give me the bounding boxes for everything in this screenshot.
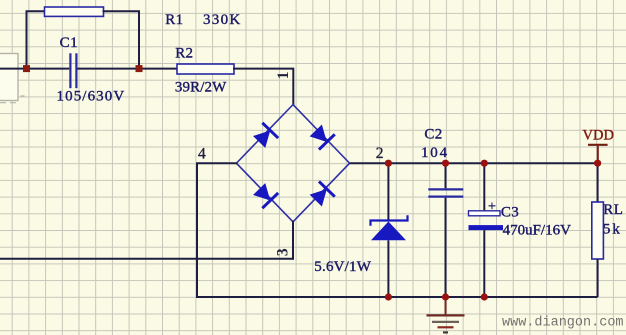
wire: positive rail node 2: [350, 162, 598, 164]
wire: node 2 to zener cathode: [387, 163, 389, 220]
svg-text:5.6V/1W: 5.6V/1W: [314, 259, 371, 275]
wire: R1 right down to main node: [104, 11, 140, 68]
svg-text:C3: C3: [501, 205, 519, 221]
junction (square) at C1 left node: [23, 65, 30, 72]
svg-text:RL: RL: [603, 202, 623, 218]
junction dot: zener top: [385, 160, 392, 167]
junction dot: C2 top: [442, 160, 449, 167]
svg-text:5k: 5k: [603, 221, 622, 237]
bridge diode lower-right (3 to 2): [308, 181, 335, 208]
wire: R2 to bridge pin 1: [234, 69, 293, 105]
bridge diode upper-right (1 to 2): [308, 123, 335, 150]
svg-text:1: 1: [275, 72, 292, 80]
resistor R2: [177, 64, 234, 74]
wire: RL bottom to bottom rail: [597, 259, 599, 297]
svg-text:2: 2: [376, 145, 384, 162]
wire: AC neutral return: [0, 258, 293, 260]
svg-text:4: 4: [198, 146, 206, 163]
svg-text:R2: R2: [175, 46, 193, 62]
junction dot: C3 bottom: [481, 293, 488, 300]
svg-text:330K: 330K: [203, 12, 242, 28]
wire: zener anode to bottom rail: [387, 240, 389, 297]
svg-text:VDD: VDD: [583, 128, 614, 144]
resistor R1: [45, 7, 104, 16]
wire: AC live input to C1 left plate: [0, 68, 69, 70]
capacitor C1: [70, 53, 76, 88]
svg-text:C1: C1: [60, 35, 79, 51]
wire: VDD node to RL: [597, 163, 599, 202]
wire: bridge pin 3 down: [292, 222, 294, 259]
bridge diode lower-left (4 to 3): [251, 181, 278, 208]
power port VDD: [583, 128, 614, 164]
capacitor C3 (electrolytic): [469, 211, 504, 230]
zener diode DZ: [371, 215, 408, 240]
junction dot: VDD node: [594, 160, 601, 167]
svg-text:R1: R1: [165, 12, 183, 28]
AC source box (cut off at left edge): [0, 54, 25, 103]
svg-text:470uF/16V: 470uF/16V: [503, 222, 572, 238]
resistor RL: [592, 202, 604, 259]
junction dot: C3 top: [481, 160, 488, 167]
wire: node 2 to C2 top plate: [445, 163, 447, 188]
junction dot: zener bottom: [385, 293, 392, 300]
svg-text:+: +: [488, 200, 496, 215]
bridge diode upper-left (4 to 1): [251, 123, 278, 150]
ground symbol: [427, 297, 465, 332]
wire: bridge pin 4 to negative rail: [197, 163, 236, 297]
bridge diamond outline: [236, 105, 349, 222]
junction (square) at C1 right node: [136, 65, 143, 72]
wire: C1 right plate to R2: [78, 68, 178, 70]
svg-text:www.diangon.com: www.diangon.com: [502, 315, 624, 330]
wire: C3 bottom plate to bottom rail: [483, 230, 485, 297]
svg-text:104: 104: [421, 145, 449, 161]
wire: C2 bottom plate to bottom rail: [445, 198, 447, 297]
svg-text:105/630V: 105/630V: [57, 88, 126, 104]
capacitor C2: [428, 189, 463, 196]
svg-text:C2: C2: [424, 127, 442, 143]
wire: left branch up to R1: [27, 11, 45, 68]
svg-text:39R/2W: 39R/2W: [175, 79, 227, 95]
wire: negative bottom rail: [197, 296, 598, 298]
junction dot: ground node: [442, 293, 449, 300]
svg-text:3: 3: [274, 248, 291, 256]
wire: node 2 to C3 top plate: [483, 163, 485, 211]
